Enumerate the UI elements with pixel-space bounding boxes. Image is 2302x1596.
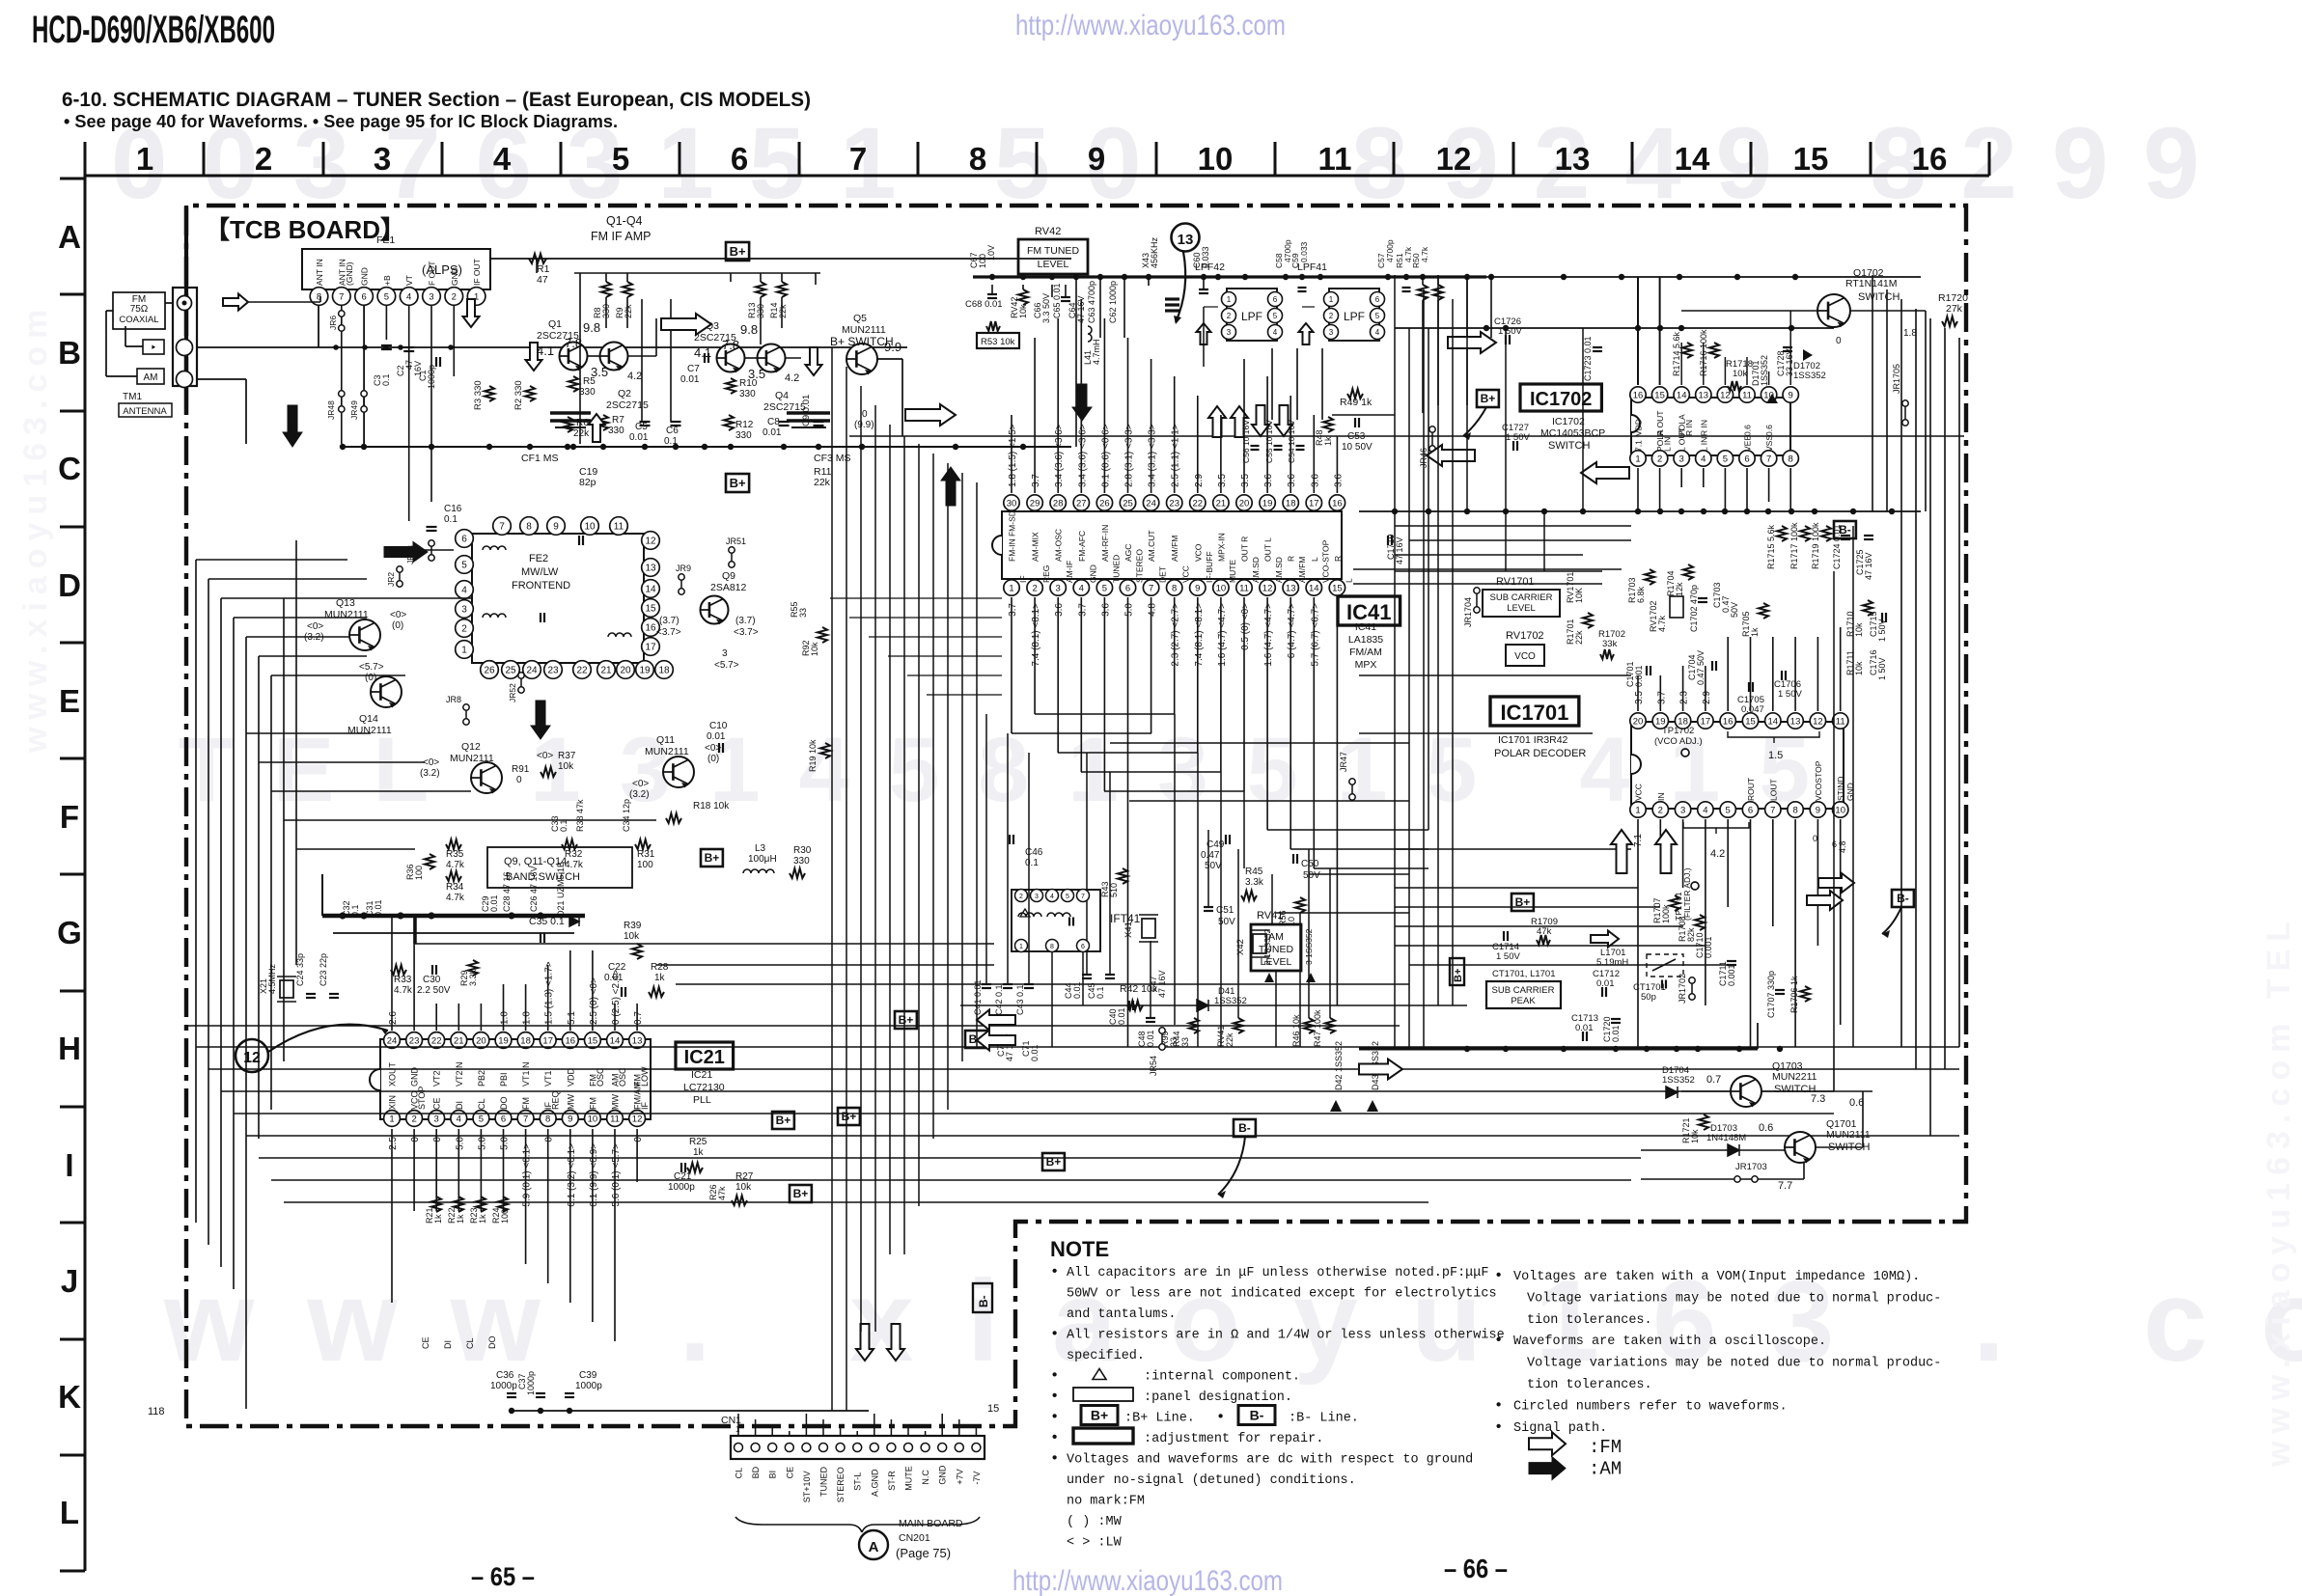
note line right — [1529, 1432, 1566, 1455]
svg-text:6: 6 — [1744, 454, 1749, 464]
svg-text:Voltages and waveforms are dc: Voltages and waveforms are dc with respe… — [1067, 1453, 1473, 1468]
svg-text:B-: B- — [1238, 1121, 1251, 1135]
svg-text:【TCB BOARD】: 【TCB BOARD】 — [205, 215, 405, 244]
B+ rail top — [490, 258, 1071, 260]
svg-text:0: 0 — [432, 1137, 443, 1142]
svg-text:BAND SWITCH: BAND SWITCH — [506, 871, 580, 883]
svg-text:Q14: Q14 — [359, 713, 378, 725]
wire y967 — [333, 932, 574, 934]
svg-text:0.1: 0.1 — [350, 904, 360, 917]
svg-text:1: 1 — [136, 141, 153, 177]
svg-text:RV1701: RV1701 — [1496, 576, 1535, 588]
svg-text:OUT L: OUT L — [1263, 537, 1273, 562]
svg-text:8: 8 — [1172, 583, 1177, 593]
svg-text:C39: C39 — [579, 1370, 597, 1381]
mid vertical trunk bundle — [831, 347, 833, 1411]
svg-text:5.0: 5.0 — [500, 1137, 511, 1150]
svg-text:SUB CARRIER: SUB CARRIER — [1490, 592, 1553, 603]
svg-text:7: 7 — [1770, 805, 1775, 815]
svg-text:26: 26 — [484, 666, 495, 676]
svg-text:33k: 33k — [1602, 639, 1618, 649]
svg-text:3: 3 — [1227, 328, 1232, 337]
svg-text:PBI: PBI — [499, 1072, 509, 1087]
svg-text:1SS352: 1SS352 — [1662, 1075, 1695, 1086]
svg-text:C16: C16 — [444, 504, 462, 514]
svg-text:3.6: 3.6 — [1333, 474, 1344, 487]
svg-text:(VCO ADJ.): (VCO ADJ.) — [1654, 736, 1703, 747]
svg-text:7.4 (8.1) <8.1>: 7.4 (8.1) <8.1> — [1031, 603, 1041, 667]
B- label above CN1 — [973, 1283, 992, 1312]
svg-text:2 1SS352: 2 1SS352 — [1262, 928, 1272, 965]
B+ label rotated left — [1450, 958, 1464, 985]
svg-text:16: 16 — [1633, 390, 1644, 400]
svg-text:1.5: 1.5 — [1768, 750, 1783, 761]
svg-text:0.001: 0.001 — [1704, 936, 1713, 958]
svg-text:23: 23 — [409, 1035, 420, 1046]
svg-text:L IN: L IN — [1699, 437, 1708, 452]
svg-text:1000p: 1000p — [526, 1371, 536, 1395]
svg-text:4.5MHz: 4.5MHz — [267, 963, 277, 994]
svg-text:22k: 22k — [624, 304, 633, 318]
svg-text:C34 12p: C34 12p — [622, 799, 631, 832]
svg-text:0.01: 0.01 — [1117, 1007, 1126, 1025]
svg-text:1: 1 — [389, 1114, 394, 1124]
svg-text:5: 5 — [1102, 583, 1107, 593]
svg-text:1k: 1k — [478, 1214, 487, 1224]
svg-text:3.7: 3.7 — [1031, 474, 1041, 487]
svg-text:7.7: 7.7 — [1778, 1180, 1792, 1192]
svg-text:IF OUT: IF OUT — [472, 259, 482, 286]
svg-text:Voltage variations may be note: Voltage variations may be noted due to n… — [1527, 1291, 1941, 1306]
arrows right col — [1611, 830, 1632, 873]
svg-text:4: 4 — [406, 291, 411, 302]
svg-text:17: 17 — [1701, 716, 1711, 727]
svg-text:1000p: 1000p — [427, 365, 436, 389]
svg-text:0.01: 0.01 — [1575, 1023, 1594, 1033]
transistor Q1 — [560, 343, 588, 371]
svg-text:and tantalums.: and tantalums. — [1067, 1307, 1176, 1322]
svg-text:18: 18 — [658, 666, 670, 676]
bus above RV1701 — [1395, 570, 1602, 572]
svg-text:IC21: IC21 — [691, 1069, 712, 1081]
transistor Q1701 switch — [1785, 1132, 1816, 1163]
svg-text:4: 4 — [1701, 454, 1706, 464]
svg-text:REG: REG — [1041, 565, 1051, 583]
svg-text:MPX-IN: MPX-IN — [1216, 533, 1226, 562]
svg-text:7.8: 7.8 — [722, 338, 739, 352]
svg-text:3.6: 3.6 — [1054, 603, 1065, 617]
svg-text:RV42: RV42 — [1035, 226, 1061, 237]
left ruler line — [84, 176, 87, 1571]
svg-text:C68 0.01: C68 0.01 — [965, 299, 1003, 310]
svg-text:25: 25 — [1123, 498, 1133, 509]
svg-text:(FILTER ADJ.): (FILTER ADJ.) — [1682, 867, 1692, 921]
svg-text:R30: R30 — [793, 845, 812, 856]
svg-text:50WV or less are not indicated: 50WV or less are not indicated except fo… — [1067, 1287, 1497, 1302]
svg-text:LEVEL: LEVEL — [1507, 603, 1536, 614]
svg-text:1.6 (4.7) <4.7>: 1.6 (4.7) <4.7> — [1217, 603, 1228, 667]
svg-text:Q4: Q4 — [775, 390, 789, 401]
svg-text:0: 0 — [1813, 834, 1817, 843]
svg-text:22: 22 — [431, 1035, 442, 1046]
svg-text:15: 15 — [987, 1403, 999, 1415]
svg-text:1.8 (1.5) <1.5>: 1.8 (1.5) <1.5> — [1008, 424, 1018, 487]
left vertical wire bundle — [195, 560, 197, 1223]
svg-text:1 50V: 1 50V — [1877, 657, 1887, 680]
AM terminal box — [137, 369, 164, 384]
svg-text:R5: R5 — [583, 376, 596, 387]
svg-text:3: 3 — [429, 291, 433, 302]
svg-text:3: 3 — [1056, 583, 1061, 593]
svg-text:R: R — [1287, 556, 1296, 562]
svg-text:(GND): (GND) — [345, 261, 354, 286]
svg-text:0.01: 0.01 — [1072, 981, 1082, 999]
svg-text:3: 3 — [374, 141, 391, 177]
svg-text:1000p: 1000p — [668, 1182, 695, 1193]
svg-text:330: 330 — [793, 856, 810, 867]
svg-text:– 65 –: – 65 – — [471, 1562, 535, 1591]
svg-text:0.6: 0.6 — [1743, 425, 1753, 436]
svg-text:under no-signal (detuned) cond: under no-signal (detuned) conditions. — [1067, 1473, 1356, 1488]
svg-text:6: 6 — [501, 1114, 506, 1124]
svg-text:11: 11 — [1742, 390, 1752, 400]
svg-text:5.7 (6.7) <6.7>: 5.7 (6.7) <6.7> — [1310, 603, 1320, 667]
svg-text:27: 27 — [1076, 498, 1087, 509]
svg-text:MUTE: MUTE — [1228, 560, 1237, 583]
svg-text:(3.7): (3.7) — [735, 616, 756, 626]
svg-text:13: 13 — [1790, 716, 1801, 727]
svg-text:20: 20 — [476, 1035, 486, 1046]
svg-text:– 66 –: – 66 – — [1444, 1554, 1508, 1583]
svg-text:4.7k: 4.7k — [565, 860, 584, 870]
svg-text:1 50V: 1 50V — [1778, 689, 1802, 700]
svg-text:MUN2111: MUN2111 — [324, 609, 369, 620]
svg-text:MC14053BCP: MC14053BCP — [1540, 427, 1605, 439]
svg-text:CN201: CN201 — [899, 1532, 930, 1544]
svg-text:4.7k: 4.7k — [446, 860, 465, 870]
svg-text:330: 330 — [739, 389, 756, 399]
svg-text:Q5: Q5 — [853, 313, 867, 324]
svg-text:R31: R31 — [637, 849, 655, 860]
svg-text:13: 13 — [645, 564, 656, 574]
svg-text:L OUT: L OUT — [1678, 427, 1687, 452]
left ruler ticks and letters — [57, 179, 85, 1571]
svg-text:1000p: 1000p — [575, 1381, 602, 1391]
svg-text:•: • — [1496, 1418, 1501, 1435]
svg-text:4: 4 — [1273, 328, 1278, 337]
svg-text:ST-R: ST-R — [887, 1471, 897, 1491]
svg-text:VCO-STOP: VCO-STOP — [1320, 539, 1330, 583]
svg-text::FM: :FM — [1589, 1437, 1622, 1458]
svg-text:LPF41: LPF41 — [1297, 261, 1327, 273]
svg-text:5.0: 5.0 — [455, 1137, 465, 1150]
svg-text:9: 9 — [568, 1114, 572, 1124]
IC41 bottom pin row — [1004, 580, 1345, 595]
svg-text:LPF42: LPF42 — [1195, 261, 1225, 273]
TCB board dash-dot outline — [186, 206, 1966, 1426]
B+ label note area — [1042, 1153, 1065, 1170]
svg-text:R7: R7 — [612, 415, 624, 426]
svg-text:8: 8 — [526, 522, 532, 533]
svg-text:BI: BI — [768, 1471, 778, 1479]
svg-text:27k: 27k — [1946, 303, 1963, 315]
svg-text:All capacitors are in μF unles: All capacitors are in μF unless otherwis… — [1067, 1266, 1488, 1280]
svg-text:B+: B+ — [730, 244, 746, 259]
svg-text:R1719 100k: R1719 100k — [1811, 522, 1820, 569]
svg-text:R IN: R IN — [1699, 420, 1708, 436]
svg-text:2: 2 — [255, 141, 272, 177]
svg-text:47k: 47k — [1537, 926, 1552, 937]
svg-text:<0>: <0> — [632, 779, 649, 789]
svg-text:5.0: 5.0 — [477, 1137, 487, 1150]
IC1701 body — [1631, 722, 1844, 809]
svg-text:FM-AFC: FM-AFC — [1077, 531, 1087, 562]
svg-text:(3.2): (3.2) — [420, 768, 440, 779]
svg-text:R38 47k: R38 47k — [575, 799, 585, 832]
svg-text:C26 47 16V: C26 47 16V — [529, 866, 539, 912]
svg-text:5: 5 — [1273, 312, 1278, 320]
svg-text:Q11: Q11 — [656, 734, 675, 746]
svg-text:Signal path.: Signal path. — [1513, 1421, 1607, 1436]
svg-text:<0>: <0> — [423, 757, 439, 768]
IC1701 brace 1.5 — [1728, 731, 1819, 743]
svg-text:0: 0 — [410, 1137, 421, 1142]
transistor Q4 — [758, 344, 786, 372]
svg-text:AM/FM: AM/FM — [1170, 536, 1179, 562]
band switch label box — [487, 847, 632, 888]
note line right — [1529, 1457, 1566, 1480]
svg-text:5: 5 — [1726, 805, 1731, 815]
svg-text:14: 14 — [645, 585, 656, 595]
svg-text:10k: 10k — [1690, 1129, 1700, 1143]
svg-text:510: 510 — [1109, 883, 1119, 897]
svg-text:9: 9 — [553, 522, 559, 533]
svg-text:RV41: RV41 — [1257, 910, 1283, 922]
IC41 top pin row — [1004, 495, 1345, 510]
svg-text:Voltage variations may be note: Voltage variations may be noted due to n… — [1527, 1357, 1941, 1371]
svg-text:21: 21 — [1216, 498, 1227, 509]
svg-text:JR2: JR2 — [386, 572, 396, 587]
svg-text:4.7k: 4.7k — [394, 985, 413, 996]
svg-text:11: 11 — [1239, 583, 1249, 593]
svg-text:1.6 (4.7) <4.7>: 1.6 (4.7) <4.7> — [1263, 603, 1274, 667]
svg-text:RT1N141M: RT1N141M — [1845, 278, 1898, 289]
svg-text:JR49: JR49 — [349, 400, 359, 420]
svg-text:4: 4 — [1050, 894, 1054, 900]
wire LPF outputs — [1204, 306, 1218, 308]
svg-text:10k: 10k — [1854, 661, 1864, 675]
arrow down at R2 — [526, 343, 542, 371]
IC41 label box — [1338, 596, 1401, 625]
svg-text:C28 47 16: C28 47 16 — [502, 871, 512, 912]
svg-text:Voltages are taken with a VOM(: Voltages are taken with a VOM(Input impe… — [1513, 1270, 1920, 1284]
svg-text:7: 7 — [499, 522, 505, 533]
transistor Q14 — [371, 676, 402, 707]
svg-text:C7: C7 — [687, 364, 700, 374]
B+ label mid — [895, 1011, 917, 1029]
black arrow AM path down — [283, 405, 302, 447]
svg-text:C1723 0.01: C1723 0.01 — [1583, 336, 1593, 381]
wire antenna to FE1 — [165, 302, 173, 304]
svg-text:8: 8 — [545, 1114, 550, 1124]
horizontal links under IC41 — [1035, 713, 1175, 715]
B+ label top — [726, 242, 749, 261]
svg-text:CE: CE — [432, 1097, 442, 1110]
svg-text:6 (4.7) <4.7>: 6 (4.7) <4.7> — [1287, 603, 1297, 658]
svg-text:GND: GND — [938, 1465, 948, 1485]
svg-text:FM: FM — [588, 1097, 597, 1110]
svg-text:23: 23 — [547, 666, 559, 676]
IC21 wires top — [391, 916, 393, 1031]
svg-text:11: 11 — [1836, 716, 1845, 727]
svg-text:4.7mH: 4.7mH — [1092, 339, 1101, 365]
svg-text:X42: X42 — [1235, 939, 1246, 955]
svg-text:MPX: MPX — [1355, 659, 1377, 671]
svg-text:MUN2211: MUN2211 — [1772, 1071, 1817, 1083]
svg-text:28: 28 — [1053, 498, 1064, 509]
svg-text:3.6: 3.6 — [1263, 474, 1274, 487]
svg-text:0: 0 — [633, 1137, 644, 1142]
B+ label left2 — [838, 1108, 860, 1125]
svg-text:R33: R33 — [394, 975, 412, 985]
svg-text:1.5 (1.3) <1.7>: 1.5 (1.3) <1.7> — [544, 961, 555, 1025]
svg-text:2: 2 — [411, 1114, 416, 1124]
svg-text:R46 10k: R46 10k — [1291, 1014, 1301, 1047]
svg-text:C: C — [58, 451, 81, 486]
svg-text:PB2: PB2 — [477, 1070, 486, 1087]
svg-text:JR52: JR52 — [508, 683, 517, 702]
svg-text:VT1: VT1 — [543, 1070, 553, 1087]
svg-text:4.8: 4.8 — [1148, 603, 1158, 617]
svg-text:<0>: <0> — [390, 610, 406, 620]
svg-text:12: 12 — [632, 1114, 643, 1124]
svg-text:E: E — [59, 683, 80, 719]
left nest horizontals — [196, 559, 347, 561]
top bus y287 — [973, 275, 1486, 278]
mesh horizontals center-right — [1395, 525, 1631, 527]
svg-text:B+: B+ — [1091, 1408, 1108, 1423]
svg-text:10k: 10k — [735, 1182, 752, 1193]
svg-text:50p: 50p — [1641, 992, 1656, 1003]
svg-text:D21 UZM5.1B: D21 UZM5.1B — [556, 862, 566, 917]
svg-text:CL: CL — [465, 1337, 475, 1349]
arrow into IC1702 — [1448, 332, 1496, 353]
svg-text:FM TUNED: FM TUNED — [1027, 245, 1079, 257]
svg-text:3.7: 3.7 — [1077, 603, 1088, 617]
svg-text:22k: 22k — [1225, 1032, 1234, 1047]
svg-text:MUTE: MUTE — [904, 1466, 914, 1491]
svg-text:no mark:FM: no mark:FM — [1067, 1495, 1145, 1509]
svg-text:15: 15 — [1332, 583, 1343, 593]
svg-text:• See page 40 for Waveforms.: • See page 40 for Waveforms. • See page … — [64, 112, 618, 131]
wires above CN1 — [737, 1414, 739, 1436]
svg-text:MUN2111: MUN2111 — [1826, 1129, 1871, 1141]
svg-text:C1702 470p: C1702 470p — [1689, 585, 1699, 632]
svg-text:100: 100 — [414, 866, 424, 880]
svg-text:B-: B- — [977, 1295, 990, 1307]
FE1 (ALPS) FM frontend block — [302, 249, 490, 289]
svg-text:330: 330 — [735, 430, 752, 441]
svg-text:82p: 82p — [579, 477, 596, 488]
svg-text:13: 13 — [1699, 390, 1709, 400]
svg-text:J: J — [61, 1263, 78, 1299]
IC41 body — [1002, 511, 1342, 579]
svg-text:0.001: 0.001 — [1634, 665, 1644, 687]
svg-text:330: 330 — [608, 426, 624, 436]
svg-text:10V: 10V — [986, 245, 996, 261]
svg-text:FE1: FE1 — [376, 234, 395, 246]
svg-text:ANTENNA: ANTENNA — [123, 406, 167, 417]
B+ label right mid — [1512, 894, 1534, 911]
svg-text:1.8: 1.8 — [1903, 328, 1917, 339]
svg-text:SWITCH: SWITCH — [1858, 291, 1900, 303]
svg-text:JR8: JR8 — [446, 695, 461, 704]
svg-text:4700p: 4700p — [1385, 239, 1395, 262]
svg-text:11: 11 — [610, 1114, 620, 1124]
svg-text:0.1 (3.2) <0.1>: 0.1 (3.2) <0.1> — [567, 1143, 577, 1207]
svg-text:A: A — [869, 1539, 879, 1555]
svg-text:3.4 (3.1) <3.3>: 3.4 (3.1) <3.3> — [1148, 424, 1158, 487]
svg-text:1k: 1k — [1750, 627, 1760, 637]
svg-text:VCO: VCO — [1193, 543, 1203, 562]
svg-text:⯈: ⯈ — [151, 344, 156, 352]
arrow down right of Q4 — [806, 347, 822, 375]
svg-text:MUN2111: MUN2111 — [645, 746, 689, 757]
IC21 top pin row — [384, 1032, 646, 1049]
svg-text:CE: CE — [785, 1467, 794, 1479]
IC1702 bottom pins — [1630, 451, 1799, 466]
svg-text:3: 3 — [1679, 454, 1684, 464]
bus above IC1702 — [1395, 327, 1834, 329]
svg-text:•: • — [1496, 1332, 1501, 1348]
svg-text:C36: C36 — [496, 1370, 514, 1381]
svg-text:C10: C10 — [709, 721, 728, 731]
svg-text:MW: MW — [611, 1094, 621, 1110]
svg-text:1k: 1k — [1323, 436, 1333, 446]
svg-text:JR9: JR9 — [676, 564, 691, 573]
svg-text:2.5 (1.1) <1.1>: 2.5 (1.1) <1.1> — [1171, 424, 1181, 487]
svg-text:16: 16 — [1723, 716, 1733, 727]
svg-text:47k: 47k — [717, 1186, 727, 1200]
svg-text:C6: C6 — [666, 426, 679, 436]
svg-text:2.8 (3.1) <3.3>: 2.8 (3.1) <3.3> — [1124, 424, 1135, 487]
transistor Q1703 — [1731, 1076, 1761, 1107]
svg-text:Q2: Q2 — [618, 388, 631, 399]
svg-text:0.6: 0.6 — [1759, 1122, 1773, 1134]
IF amp vertical wires — [536, 259, 538, 273]
black arrow AM into FE2 — [384, 542, 428, 563]
svg-text:5.0: 5.0 — [1124, 603, 1135, 617]
svg-text:VDD: VDD — [1634, 419, 1644, 436]
vertical wires top center — [991, 285, 993, 294]
svg-text:•: • — [1052, 1388, 1057, 1404]
svg-text:6: 6 — [1375, 295, 1380, 304]
svg-text:4: 4 — [1079, 583, 1084, 593]
svg-text:20: 20 — [1633, 716, 1644, 727]
svg-text:IF: IF — [640, 1101, 650, 1110]
svg-text:2.5 (0) <0>: 2.5 (0) <0> — [589, 977, 599, 1025]
svg-text:5.1: 5.1 — [567, 1011, 577, 1025]
svg-text:CT1701, L1701: CT1701, L1701 — [1492, 969, 1556, 979]
svg-text:CE: CE — [421, 1336, 430, 1349]
svg-text:1: 1 — [461, 646, 467, 656]
svg-text:AM-MIX: AM-MIX — [1031, 532, 1040, 562]
svg-text:N.C: N.C — [921, 1470, 930, 1485]
svg-text:3: 3 — [722, 648, 728, 659]
svg-text:4.7k: 4.7k — [1657, 615, 1667, 632]
svg-text:C56 10 16V: C56 10 16V — [1241, 420, 1251, 463]
bus y452 segment — [849, 435, 1964, 437]
